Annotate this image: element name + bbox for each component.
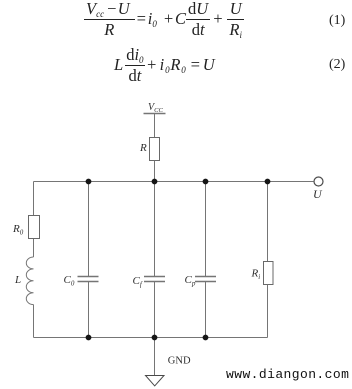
svg-text:Ri: Ri	[251, 268, 261, 282]
svg-text:R: R	[139, 142, 147, 154]
svg-text:VCC: VCC	[148, 102, 163, 114]
svg-text:R0: R0	[12, 223, 24, 237]
svg-text:L: L	[14, 274, 21, 286]
svg-text:Cf: Cf	[133, 275, 143, 289]
svg-text:C0: C0	[64, 274, 75, 288]
svg-text:Cp: Cp	[185, 274, 196, 288]
svg-text:GND: GND	[168, 356, 191, 367]
svg-text:U: U	[313, 187, 323, 201]
